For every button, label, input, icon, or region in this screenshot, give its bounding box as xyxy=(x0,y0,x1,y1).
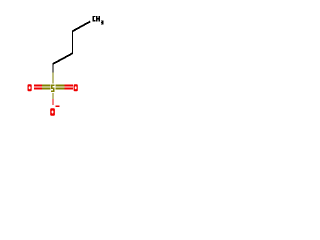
double bond S=O left, oxygen half (red) xyxy=(34,86,42,89)
atom S (sulfur label, blocky olive S) xyxy=(51,84,54,91)
atom O right (red O of S=O) xyxy=(74,84,78,91)
charge minus (superscript of O-minus) xyxy=(56,105,60,107)
bond C3-C2 (diagonal) xyxy=(53,53,73,64)
label CH3: H glyph xyxy=(96,16,100,22)
bond S-O(minus), sulfur half (olive) xyxy=(52,93,54,99)
label CH3: C glyph xyxy=(93,16,96,22)
bond S-O(minus), oxygen half (red) xyxy=(52,99,54,105)
double bond S=O left, sulfur half (olive) xyxy=(42,86,50,89)
bond C4-CH3 (diagonal to methyl label) xyxy=(72,22,90,32)
double bond S=O right, sulfur half (olive) xyxy=(56,86,65,89)
atom O bottom (red O of sulfonate O-minus) xyxy=(50,108,55,116)
label CH3: subscript 3 glyph xyxy=(101,20,103,24)
double bond S=O right, oxygen half (red) xyxy=(65,86,73,89)
bond C4-C3 (vertical) xyxy=(72,31,74,54)
atom O left (red O of S=O) xyxy=(28,84,32,91)
bond C2-S lower half (sulfur side, olive) xyxy=(52,73,54,84)
bond C2-S upper half (carbon side, black) xyxy=(52,64,54,73)
